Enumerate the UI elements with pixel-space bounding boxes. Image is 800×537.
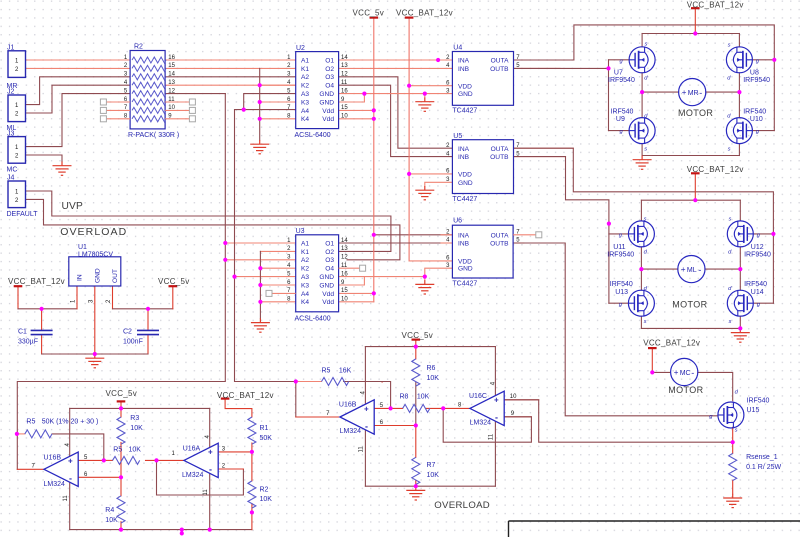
- wire J3 pin1 to R2 pin5: [26, 94, 131, 147]
- svg-text:MOTOR: MOTOR: [672, 299, 707, 309]
- svg-text:GND: GND: [319, 91, 334, 98]
- wire U2 GND16 row to U4 GND and ground: [339, 93, 453, 95]
- svg-text:-: -: [699, 88, 702, 98]
- wire U8 gate lead: [752, 59, 774, 61]
- wire U16B mid pin5 to R8 left: [374, 407, 403, 409]
- wire U3 Vdd10 to VCC_5v: [339, 301, 374, 303]
- svg-text:11: 11: [489, 433, 495, 440]
- wire VCC_5v stem mid block: [415, 340, 417, 347]
- wire VCC_BAT stem right of left block: [225, 399, 252, 417]
- svg-text:12: 12: [168, 88, 175, 94]
- regulator U1 LM7805CV: [69, 257, 121, 286]
- svg-text:s: s: [728, 319, 731, 325]
- svg-text:R6: R6: [427, 365, 436, 372]
- driver U6 TC4427: [452, 225, 513, 278]
- wire R2 pin15 to U2 K1: [165, 67, 296, 69]
- svg-text:VCC_BAT_12v: VCC_BAT_12v: [643, 339, 700, 348]
- wire U5 OUTB to left gate bus of ML bridge: [514, 157, 609, 304]
- wire U16B pin4 vertical: [69, 408, 71, 456]
- svg-text:O2: O2: [325, 249, 334, 256]
- wire VCC_5v stem left block: [120, 401, 122, 408]
- wire U16A pin4 vertical: [209, 408, 211, 447]
- resistor pack R2: [100, 51, 195, 129]
- svg-text:16: 16: [341, 271, 348, 277]
- svg-text:IRF540: IRF540: [610, 281, 633, 288]
- motor captions: [668, 108, 713, 395]
- svg-text:OUTA: OUTA: [491, 146, 509, 153]
- wire R2 pin16 to U2 A1: [165, 59, 296, 61]
- ground below U2 cathode bus: [250, 140, 269, 154]
- capacitor C2: [137, 330, 159, 334]
- svg-text:K2: K2: [301, 83, 309, 90]
- wire U7 source up: [641, 34, 643, 47]
- wire left block top rail VCC_5v: [70, 407, 210, 409]
- power bar VCC_5v U1: [169, 285, 178, 287]
- wire R3 leads: [120, 408, 122, 417]
- svg-text:IRF540: IRF540: [743, 109, 766, 116]
- wire U16B pin6 input: [78, 476, 121, 478]
- svg-text:GND: GND: [319, 99, 334, 106]
- svg-text:GND: GND: [458, 266, 473, 273]
- power bar VCC_BAT_12v left block: [221, 398, 230, 400]
- transistor U11 IRF9540: [628, 221, 654, 247]
- svg-text:R4: R4: [105, 507, 114, 514]
- ground ML bridge: [731, 328, 750, 342]
- wire U2 O4 jog to U5 INB: [339, 85, 453, 156]
- svg-text:INA: INA: [458, 146, 470, 153]
- ground at U5: [415, 186, 434, 200]
- wire U16B pin5 input: [78, 459, 104, 461]
- wire V1 tee to U3 A2: [225, 259, 295, 261]
- svg-text:INB: INB: [458, 66, 470, 73]
- svg-text:R1: R1: [260, 425, 269, 432]
- connector J1: [8, 51, 26, 78]
- junction dots VCC_5v rail: [372, 108, 376, 112]
- resistor R2 10K vertical: [248, 481, 256, 508]
- svg-text:U4: U4: [453, 45, 462, 52]
- ground below U3 cathode bus: [251, 318, 270, 332]
- no-connect on U3 pin A4: [272, 292, 296, 294]
- resistor R3 10K vertical: [117, 417, 125, 444]
- svg-text:A4: A4: [301, 291, 309, 298]
- svg-text:U12: U12: [751, 244, 764, 251]
- wire U16B mid pin4 vertical: [364, 347, 366, 405]
- svg-text:ML: ML: [687, 267, 697, 274]
- junction dot ML ground: [738, 326, 742, 330]
- wire U9 gate lead: [609, 130, 630, 132]
- wire J3 pin2 to ground: [26, 155, 63, 162]
- wire U2 Vdd15 to VCC_5v: [339, 109, 374, 111]
- svg-text:s: s: [645, 42, 648, 48]
- svg-text:-: -: [698, 265, 701, 275]
- wire capacitor ground rail: [42, 353, 148, 355]
- motor ML: [678, 256, 705, 283]
- wire U15 source to Rsense: [732, 427, 734, 453]
- junction dots VCC_BAT rail: [407, 84, 411, 88]
- junction dots U1 rails: [40, 307, 44, 311]
- wire ML right mid column: [739, 247, 741, 290]
- svg-text:INB: INB: [458, 241, 470, 248]
- svg-text:50K (1% 20 + 30 ): 50K (1% 20 + 30 ): [42, 419, 99, 426]
- wire U2 GND9 jog up: [339, 94, 365, 102]
- wire U1 OUT pin stub: [112, 286, 114, 309]
- wire U2 O1 to U4 INA: [339, 59, 453, 61]
- svg-text:ACSL-6400: ACSL-6400: [295, 316, 331, 323]
- svg-text:IRF9540: IRF9540: [743, 77, 770, 84]
- wire U5 GND to ground: [425, 182, 453, 186]
- svg-text:U16B: U16B: [339, 402, 357, 409]
- svg-text:INA: INA: [458, 232, 470, 239]
- wire MR motor right lead: [706, 91, 740, 93]
- svg-text:K3: K3: [301, 99, 309, 106]
- power bar VCC_BAT_12v MC motor: [648, 347, 657, 349]
- svg-text:MOTOR: MOTOR: [668, 385, 703, 395]
- wire VCC_BAT_12v vertical rail: [408, 18, 410, 261]
- power bar VCC_BAT_12v U1: [14, 285, 23, 287]
- ground below J3: [53, 162, 72, 176]
- wire C2 top lead: [147, 309, 149, 330]
- svg-text:TC4427: TC4427: [452, 196, 477, 203]
- svg-text:10K: 10K: [417, 393, 430, 400]
- svg-text:+: +: [364, 404, 369, 413]
- svg-text:U16C: U16C: [469, 393, 487, 400]
- wire U6 VDD to VCC_BAT end: [409, 260, 452, 262]
- wire U1 input rail: [18, 308, 77, 310]
- svg-text:IRF9540: IRF9540: [607, 251, 634, 258]
- svg-text:VCC_5v: VCC_5v: [158, 277, 190, 286]
- wire U16C pin11 vertical: [494, 421, 496, 486]
- svg-text:11: 11: [341, 80, 348, 86]
- wire MR left gate bus: [608, 60, 610, 131]
- power bar VCC_BAT_12v top: [405, 17, 414, 19]
- ground at U1 caps: [85, 354, 104, 368]
- svg-text:LM324: LM324: [470, 420, 492, 427]
- svg-text:OVERLOAD: OVERLOAD: [434, 500, 490, 511]
- wire U16C pin4 vertical: [494, 347, 496, 396]
- wire R2 pin13 to U2 K2: [165, 84, 296, 86]
- wire U16B mid pin6 input: [374, 425, 416, 427]
- svg-text:R-PACK( 330R ): R-PACK( 330R ): [128, 132, 179, 139]
- svg-text:15: 15: [341, 288, 348, 294]
- svg-text:IRF540: IRF540: [744, 281, 767, 288]
- wire U4 ground stem: [424, 94, 426, 98]
- svg-text:O1: O1: [325, 240, 334, 247]
- svg-text:A1: A1: [301, 57, 309, 64]
- resistor R4 10K vertical: [117, 496, 125, 523]
- wire U16B pin7 output: [17, 468, 44, 470]
- svg-text:OUTA: OUTA: [491, 58, 509, 65]
- wire U16A pin3 input: [218, 451, 252, 453]
- wire R2 bottom lead to bottom rail: [251, 504, 253, 530]
- wire R7 leads: [415, 426, 417, 458]
- wire U4 OUTA to right gate bus of MR bridge: [514, 25, 775, 131]
- wire J4 pin1 UVP net to U3 O2 and U6 INB: [26, 191, 391, 251]
- wire R1 bottom lead: [251, 443, 253, 481]
- svg-text:GND: GND: [458, 180, 473, 187]
- power bar VCC_5v left block: [117, 400, 126, 402]
- svg-text:VCC_BAT_12v: VCC_BAT_12v: [8, 277, 65, 286]
- ground at Rsense: [723, 494, 742, 508]
- svg-text:VCC_BAT_12v: VCC_BAT_12v: [396, 8, 453, 17]
- svg-text:VDD: VDD: [458, 83, 472, 90]
- svg-text:GND: GND: [319, 282, 334, 289]
- svg-text:Rsense_1: Rsense_1: [746, 454, 778, 461]
- power bar VCC_BAT_12v MR bridge: [691, 7, 700, 9]
- svg-text:15: 15: [168, 63, 175, 69]
- wire U12 gate lead: [753, 233, 773, 235]
- capacitor C1: [31, 330, 53, 334]
- svg-text:12: 12: [341, 255, 348, 261]
- transistor terminal letters: [619, 42, 761, 434]
- transistor U8 IRF9540: [726, 47, 752, 73]
- power bar VCC_5v top: [370, 17, 379, 19]
- connector J4: [8, 181, 26, 208]
- wire MR left mid column: [641, 73, 643, 118]
- wire MC motor right lead to U15 drain: [698, 372, 733, 400]
- wire VCC_BAT_12v stem at U1: [17, 286, 19, 309]
- wire U9 drain down / U10 drain down / MR bottom rail: [641, 144, 643, 156]
- motor MC: [671, 358, 698, 385]
- svg-text:s: s: [735, 427, 738, 433]
- svg-text:TC4427: TC4427: [452, 281, 477, 288]
- svg-text:10K: 10K: [427, 375, 440, 382]
- svg-text:-: -: [209, 465, 212, 475]
- wire ML bridge top rail: [641, 199, 740, 201]
- junction dots UVP OVERLOAD nets: [436, 58, 440, 62]
- svg-text:11: 11: [63, 495, 69, 502]
- wire U5 OUTA to right gate bus of ML bridge: [514, 148, 774, 303]
- wire J1 pin2 to R2 pin2: [26, 67, 131, 69]
- svg-text:330µF: 330µF: [18, 338, 38, 345]
- junction dots GND nets U4 U6: [423, 92, 427, 96]
- svg-text:10K: 10K: [427, 472, 440, 479]
- wire U13 gate lead: [609, 302, 629, 304]
- svg-text:13: 13: [168, 80, 175, 86]
- svg-text:R8: R8: [400, 393, 409, 400]
- svg-text:VCC_BAT_12v: VCC_BAT_12v: [217, 391, 274, 400]
- svg-text:O2: O2: [325, 66, 334, 73]
- svg-text:14: 14: [341, 55, 348, 61]
- svg-text:VCC_5v: VCC_5v: [353, 8, 385, 17]
- junction dots U3 cathode bus: [258, 266, 262, 270]
- wire R6 leads: [415, 347, 417, 359]
- svg-text:IRF9540: IRF9540: [744, 251, 771, 258]
- svg-text:50K: 50K: [260, 435, 273, 442]
- wire C1 bottom lead: [41, 335, 43, 354]
- svg-text:K4: K4: [301, 116, 309, 123]
- junction dots bridges power: [693, 31, 697, 35]
- wire U7 gate lead: [609, 59, 630, 61]
- svg-text:O4: O4: [325, 266, 334, 273]
- wire J4 pin2 OVERLOAD net to U3 O3 and U6 INA: [26, 199, 400, 259]
- op-amp U16C: [470, 391, 504, 425]
- wire MR bridge top rail: [642, 33, 739, 35]
- svg-text:-: -: [691, 368, 694, 378]
- wire R5 10K row to U16A output pin1: [104, 459, 113, 461]
- junction dots U2 cathode bus: [258, 83, 262, 87]
- wire U2 O3 jog to U5 INA: [339, 77, 453, 148]
- power bar VCC_BAT_12v ML bridge: [691, 172, 700, 174]
- svg-text:12: 12: [341, 72, 348, 78]
- wire U5 VDD to VCC_BAT: [409, 173, 452, 175]
- svg-text:s: s: [728, 216, 731, 222]
- transistor U12 IRF9540: [727, 221, 753, 247]
- wire U8 source up: [738, 34, 740, 47]
- resistor Rsense_1 vertical: [729, 453, 737, 480]
- wire U16B pin11 vertical: [69, 482, 71, 529]
- svg-text:U16B: U16B: [44, 454, 62, 461]
- svg-text:A2: A2: [301, 74, 309, 81]
- transistor U13 IRF540: [628, 290, 654, 316]
- wire U10 gate lead: [752, 130, 774, 132]
- svg-text:VCC_5v: VCC_5v: [402, 331, 434, 340]
- svg-text:C1: C1: [18, 329, 27, 336]
- svg-text:OUT: OUT: [112, 269, 119, 283]
- svg-text:K1: K1: [301, 66, 309, 73]
- wire VCC_5v stem at U1: [172, 286, 174, 309]
- wire U2 K3 stub from bus: [260, 101, 296, 103]
- svg-text:A4: A4: [301, 108, 309, 115]
- wire U11 source up / U12 source up: [640, 200, 642, 221]
- svg-text:J1: J1: [7, 45, 15, 52]
- wire MR right mid column: [738, 73, 740, 118]
- svg-text:R5: R5: [113, 447, 122, 454]
- wire C2 bottom lead: [147, 335, 149, 354]
- svg-text:15: 15: [341, 105, 348, 111]
- svg-text:LM324: LM324: [182, 472, 204, 479]
- wire pin stubs red overlays: [504, 416, 532, 418]
- svg-text:Vdd: Vdd: [322, 291, 334, 298]
- svg-text:GND: GND: [458, 91, 473, 98]
- wire R5 50K from feedback bus through to pin5 node: [17, 433, 25, 435]
- no-connect on U6 OUTA: [513, 234, 536, 236]
- svg-text:MC: MC: [680, 370, 691, 377]
- ground at U6: [415, 280, 434, 294]
- svg-text:GND: GND: [94, 268, 101, 283]
- wire Rsense bottom to ground: [732, 480, 734, 494]
- wire U2 Vdd10 to VCC_5v: [339, 118, 374, 120]
- wire U3 K2 stub: [260, 267, 295, 269]
- wire ML motor right lead: [705, 268, 740, 270]
- optocoupler U2 ACSL-6400: [296, 52, 339, 129]
- svg-text:s: s: [644, 216, 647, 222]
- wire MR bridge VCC stem: [694, 8, 696, 33]
- svg-text:R2: R2: [260, 487, 269, 494]
- svg-text:R5: R5: [26, 419, 35, 426]
- wire MC motor left lead: [652, 371, 670, 373]
- wire U1 output rail to VCC_5v: [113, 308, 173, 310]
- svg-text:INB: INB: [458, 154, 470, 161]
- wire U6 OUTB to U15 gate: [513, 243, 718, 416]
- wire U16B mid pin11 vertical: [364, 431, 366, 487]
- power net labels: [8, 0, 744, 400]
- svg-text:VCC_BAT_12v: VCC_BAT_12v: [687, 0, 744, 9]
- svg-text:O4: O4: [325, 83, 334, 90]
- svg-text:K1: K1: [301, 249, 309, 256]
- svg-text:J2: J2: [7, 89, 15, 96]
- wire U2 A3 jog down V2 bus to U3 A3 and right rail: [244, 94, 296, 110]
- svg-text:K2: K2: [301, 266, 309, 273]
- junction dots gate buses: [606, 66, 610, 70]
- svg-text:U16A: U16A: [183, 445, 201, 452]
- svg-text:+: +: [674, 368, 679, 377]
- svg-text:A3: A3: [301, 91, 309, 98]
- wire ML motor left lead: [641, 268, 677, 270]
- svg-text:14: 14: [341, 238, 348, 244]
- svg-text:VCC_BAT_12v: VCC_BAT_12v: [687, 165, 744, 174]
- wire VCC_5v vertical rail: [373, 18, 375, 302]
- svg-text:VDD: VDD: [458, 258, 472, 265]
- svg-text:16K: 16K: [339, 368, 352, 375]
- wire left feedback rail to R5 16K and mid pin7: [236, 381, 296, 383]
- wire V2 tee to U3 A3: [235, 276, 296, 278]
- svg-text:K4: K4: [301, 299, 309, 306]
- wire U2 A4 down V2 bus to U3 A3 and right rail: [235, 110, 296, 382]
- svg-text:s: s: [644, 319, 647, 325]
- wire U3 Vdd15 to VCC_5v: [339, 292, 374, 294]
- wire mid block bottom rail: [365, 485, 495, 487]
- svg-text:U13: U13: [615, 289, 628, 296]
- svg-text:s: s: [728, 146, 731, 152]
- svg-text:+: +: [494, 396, 499, 405]
- svg-text:OUTB: OUTB: [490, 154, 509, 161]
- svg-text:10K: 10K: [129, 447, 142, 454]
- wire U6 GND pin down to ground join: [425, 268, 453, 280]
- svg-text:U1: U1: [78, 244, 87, 251]
- title block: [509, 521, 800, 537]
- wire U3 GND16 row to U6 GND ground: [339, 276, 425, 278]
- svg-text:10: 10: [168, 105, 175, 111]
- svg-text:U8: U8: [750, 70, 759, 77]
- wire U16A pin11 vertical: [209, 474, 211, 530]
- svg-text:10: 10: [341, 114, 348, 120]
- svg-text:100nF: 100nF: [123, 338, 143, 345]
- resistor R7 10K vertical: [412, 457, 420, 484]
- transistor U10 IRF540: [726, 118, 752, 144]
- wire U4 VDD to VCC_BAT: [409, 85, 452, 87]
- svg-text:R3: R3: [130, 415, 139, 422]
- wire output stubs salmon: [514, 59, 574, 61]
- svg-text:OUTB: OUTB: [490, 66, 509, 73]
- ground mid comparator block OVERLOAD: [406, 486, 425, 500]
- svg-text:10: 10: [510, 394, 517, 400]
- op-amp U16B left: [44, 452, 78, 486]
- wire U4 OUTB to left gate bus of MR bridge: [514, 67, 609, 69]
- wire left block bottom rail: [70, 529, 252, 531]
- junction dots mid comparator block: [294, 379, 298, 383]
- svg-text:11: 11: [203, 489, 209, 496]
- junction dots V1 bus: [223, 241, 227, 245]
- svg-text:IRF540: IRF540: [611, 109, 634, 116]
- wire U11 gate lead: [609, 233, 629, 235]
- wire J1 pin1 to R2 pin1: [26, 59, 131, 61]
- svg-text:U14: U14: [751, 289, 764, 296]
- svg-text:UVP: UVP: [62, 201, 84, 212]
- wire R2 pin12 to V1 bus: [165, 93, 225, 95]
- svg-text:OUTA: OUTA: [491, 232, 509, 239]
- wire R8 right to U16C pin8: [426, 407, 470, 409]
- svg-text:IRF540: IRF540: [747, 398, 770, 405]
- driver U4 TC4427: [452, 52, 513, 106]
- op-amp U16B mid: [340, 400, 374, 434]
- svg-text:+: +: [682, 88, 687, 97]
- svg-text:U3: U3: [296, 228, 305, 235]
- svg-text:16: 16: [168, 55, 175, 61]
- svg-text:VDD: VDD: [458, 172, 472, 179]
- wire U16B mid pin7 output: [296, 382, 340, 418]
- junction dot V2 bus: [232, 275, 236, 279]
- svg-text:16: 16: [341, 88, 348, 94]
